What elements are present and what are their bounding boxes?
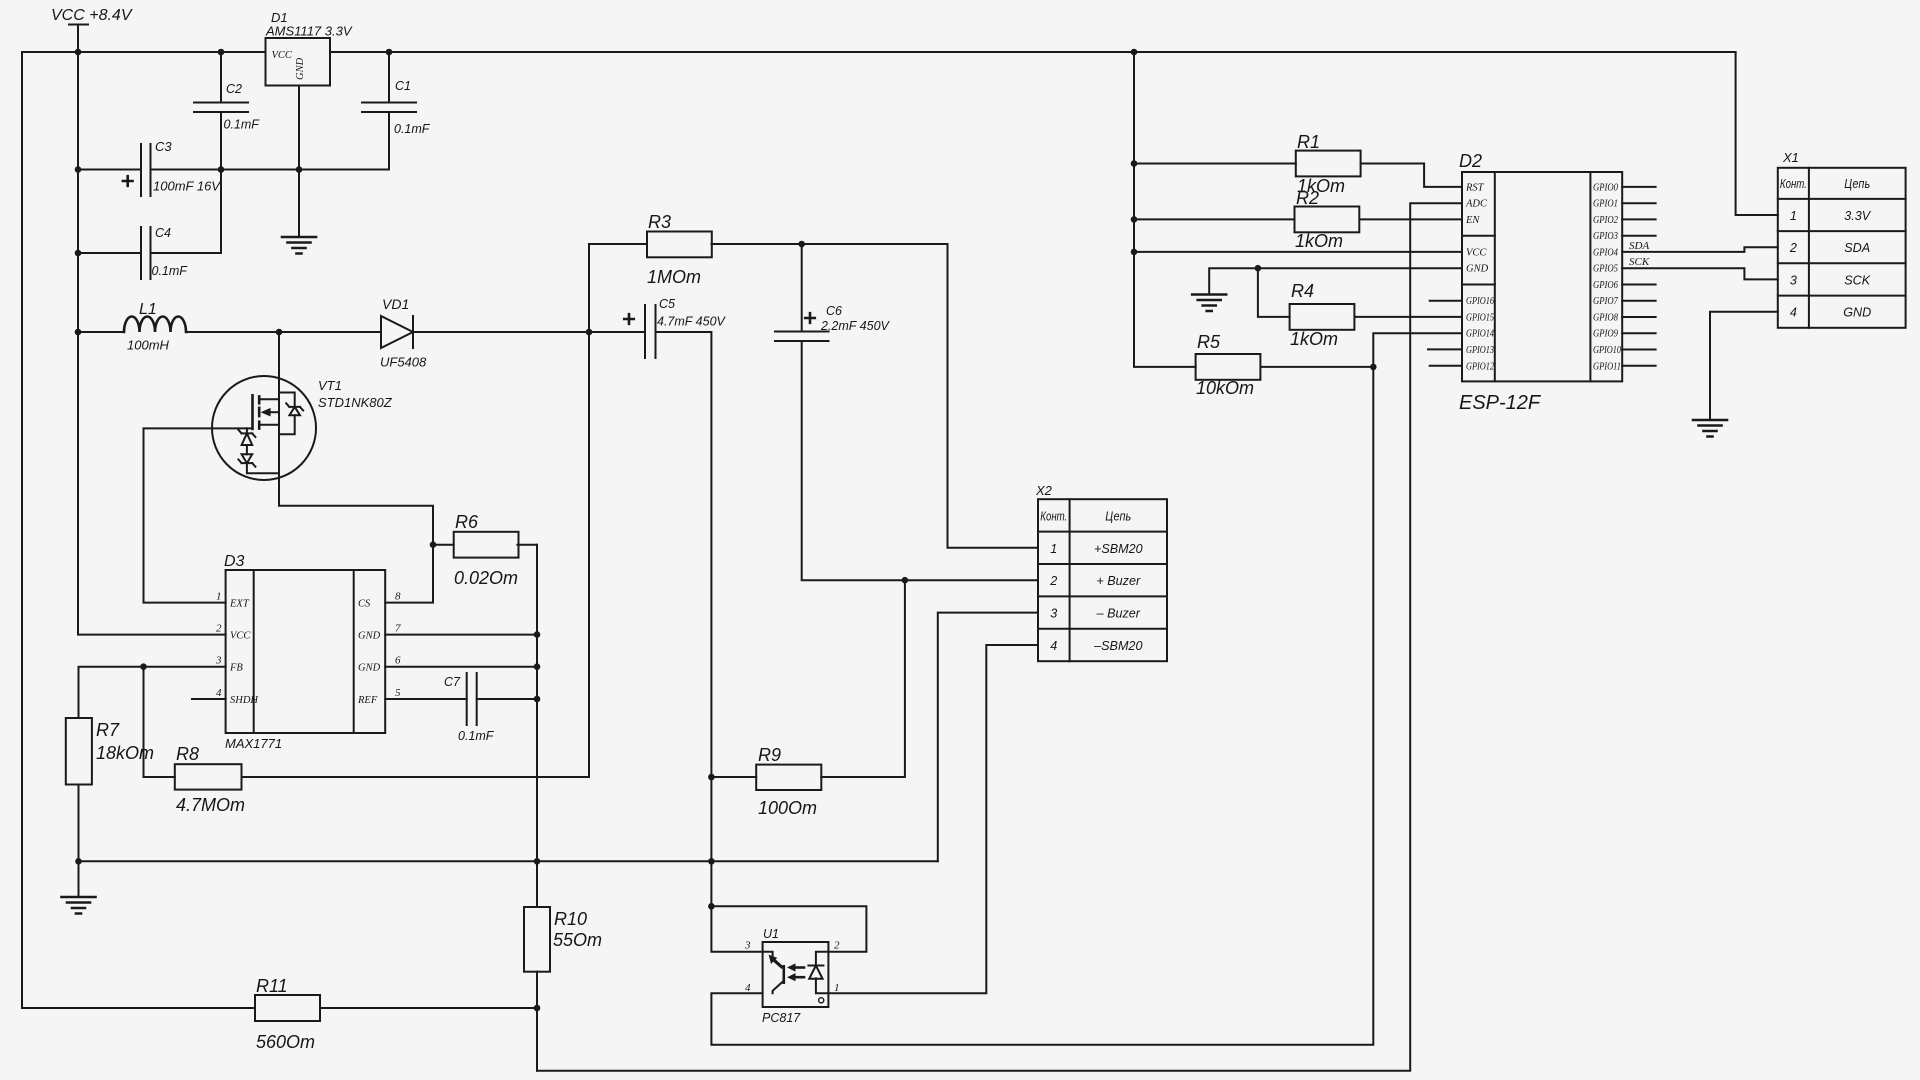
junction — [75, 49, 82, 56]
resistor R9 100Om — [756, 745, 821, 818]
svg-text:1: 1 — [1050, 542, 1057, 556]
svg-text:0.02Om: 0.02Om — [454, 568, 518, 588]
svg-text:X1: X1 — [1782, 150, 1799, 165]
wire: rail to L1 — [78, 331, 124, 333]
wire: D1 GND pin to ground — [298, 86, 300, 238]
resistor R4 1kOm — [1290, 281, 1355, 349]
svg-text:AMS1117 3.3V: AMS1117 3.3V — [265, 24, 353, 39]
junction — [296, 166, 303, 173]
svg-text:1MOm: 1MOm — [647, 267, 701, 287]
resistor R5 10kOm — [1196, 332, 1261, 398]
svg-text:2: 2 — [216, 623, 222, 635]
resistor R11 560Om — [255, 976, 320, 1052]
connector X2 table — [1035, 483, 1167, 661]
junction — [140, 663, 147, 670]
svg-text:GPIO14: GPIO14 — [1466, 329, 1495, 340]
wire: X2 pin3 (-Buzer) to ground bus — [938, 613, 1038, 862]
svg-text:PC817: PC817 — [762, 1011, 801, 1025]
svg-text:EXT: EXT — [229, 599, 250, 610]
wire: C4 row — [78, 252, 221, 254]
svg-text:1: 1 — [1790, 209, 1797, 223]
wire: GND rail of MAX1771 — [536, 545, 538, 907]
svg-text:GPIO1: GPIO1 — [1593, 199, 1618, 210]
junction — [276, 329, 283, 336]
wire: VT1 drain-source path to R6 node — [279, 332, 433, 545]
junction — [218, 166, 225, 173]
svg-text:GPIO0: GPIO0 — [1593, 182, 1619, 193]
svg-text:GPIO2: GPIO2 — [1593, 215, 1619, 226]
junction — [534, 663, 541, 670]
junction — [708, 774, 715, 781]
svg-text:3: 3 — [215, 655, 222, 667]
wire: SDA GPIO4 to X1 pin2 — [1622, 247, 1778, 252]
IC D2 ESP-12F — [1459, 151, 1622, 414]
svg-text:0.1mF: 0.1mF — [458, 729, 495, 743]
svg-text:SCK: SCK — [1629, 256, 1650, 268]
wire: R11 to divider node — [320, 1007, 537, 1009]
svg-text:GND: GND — [358, 631, 381, 642]
svg-text:100Om: 100Om — [758, 798, 817, 818]
svg-text:3.3V: 3.3V — [1844, 209, 1872, 223]
wire: SCK GPIO5 to X1 pin3 — [1622, 268, 1778, 279]
junction — [798, 241, 805, 248]
wire: R3 to X2 pin1 (+SBM20) — [712, 244, 1039, 548]
svg-text:C4: C4 — [155, 226, 171, 240]
resistor R3 1MOm — [647, 212, 712, 287]
svg-text:2.2mF 450V: 2.2mF 450V — [820, 319, 891, 333]
svg-text:4: 4 — [1790, 306, 1797, 320]
svg-text:R11: R11 — [256, 976, 288, 996]
svg-text:GPIO15: GPIO15 — [1466, 313, 1494, 324]
svg-text:GPIO3: GPIO3 — [1593, 231, 1618, 242]
svg-text:4: 4 — [216, 687, 222, 699]
junction — [75, 858, 82, 865]
IC D3 MAX1771 — [215, 553, 401, 751]
svg-text:1: 1 — [834, 982, 840, 994]
wire: EXT pin to gate — [144, 428, 253, 602]
connector X1 table — [1778, 150, 1906, 328]
wire: ESP right GPIO stubs — [1622, 187, 1655, 366]
svg-text:GND: GND — [1466, 264, 1489, 275]
junction — [386, 49, 393, 56]
wire: GND pin7 row — [385, 634, 537, 636]
capacitor C5 4.7mF 450V (polarized) — [624, 297, 726, 358]
svg-text:EN: EN — [1465, 215, 1480, 226]
svg-text:Конт.: Конт. — [1780, 177, 1807, 191]
svg-text:GND: GND — [358, 663, 381, 674]
wire: X2 pin4 (-SBM20) to U1 pin1 — [828, 645, 1038, 993]
svg-text:GPIO9: GPIO9 — [1593, 329, 1619, 340]
svg-text:4.7mF 450V: 4.7mF 450V — [657, 315, 727, 329]
svg-text:GPIO13: GPIO13 — [1466, 345, 1494, 356]
svg-text:Цепь: Цепь — [1844, 177, 1870, 191]
svg-text:R6: R6 — [455, 512, 479, 532]
svg-text:GPIO10: GPIO10 — [1593, 345, 1622, 356]
wire: output node to R3 — [589, 244, 647, 332]
svg-text:5: 5 — [395, 687, 401, 699]
svg-text:STD1NK80Z: STD1NK80Z — [318, 395, 393, 410]
svg-text:4: 4 — [1050, 639, 1057, 653]
svg-text:ESP-12F: ESP-12F — [1459, 392, 1542, 414]
svg-text:C5: C5 — [659, 297, 675, 311]
wire: C1 top — [388, 52, 390, 103]
svg-text:SCK: SCK — [1844, 273, 1870, 287]
svg-text:Конт.: Конт. — [1040, 510, 1067, 524]
svg-text:GPIO8: GPIO8 — [1593, 313, 1619, 324]
svg-text:VCC +8.4V: VCC +8.4V — [51, 7, 133, 24]
inductor L1 100mH — [124, 301, 186, 353]
wire: GPIO12 stub — [1430, 365, 1462, 367]
svg-text:R7: R7 — [96, 720, 120, 740]
svg-text:UF5408: UF5408 — [380, 355, 427, 370]
wire: REF pin to C7 — [385, 698, 537, 700]
resistor R7 18kOm (vertical) — [66, 718, 154, 785]
svg-text:+SBM20: +SBM20 — [1094, 542, 1143, 556]
wire: ground bus — [78, 860, 938, 862]
wire: ESP 3.3V rail to R5 — [1134, 52, 1196, 367]
junction — [1131, 49, 1138, 56]
capacitor C7 0.1mF — [444, 673, 495, 743]
junction — [218, 49, 225, 56]
junction — [534, 696, 541, 703]
node VCC +8.4V flag — [51, 7, 133, 25]
svg-text:4.7MOm: 4.7MOm — [176, 795, 245, 815]
svg-text:4: 4 — [745, 982, 751, 994]
wire: C3 row — [78, 169, 389, 171]
wire: R10 bottom to bottom bus — [536, 972, 538, 1071]
ground (X1 GND) — [1693, 420, 1727, 437]
wire: C2 top — [220, 52, 222, 103]
svg-text:CS: CS — [358, 599, 371, 610]
svg-text:R9: R9 — [758, 745, 781, 765]
wire: left border to R11 — [22, 52, 255, 1008]
capacitor C1 0.1mF — [362, 79, 431, 136]
svg-text:GPIO16: GPIO16 — [1466, 296, 1495, 307]
wire: R5 right to GPIO14 net — [1261, 366, 1374, 368]
wire: bus to X1 pin1 (3.3V) — [1736, 52, 1778, 215]
wire: FB pin to R7 — [79, 667, 226, 718]
svg-text:SDA: SDA — [1844, 241, 1870, 255]
svg-text:3: 3 — [1790, 273, 1797, 287]
wire: R9 left to ground rail — [711, 776, 756, 778]
wire: GPIO16 stub — [1430, 300, 1462, 302]
svg-text:GPIO11: GPIO11 — [1593, 361, 1621, 372]
wire: X1 pin4 GND to ground — [1710, 312, 1778, 420]
svg-text:GPIO6: GPIO6 — [1593, 280, 1619, 291]
svg-text:18kOm: 18kOm — [96, 743, 154, 763]
junction — [534, 858, 541, 865]
svg-text:VCC: VCC — [1466, 247, 1487, 258]
svg-text:R4: R4 — [1291, 281, 1314, 301]
wire: VD1 to C5 — [413, 331, 645, 333]
svg-text:6: 6 — [395, 655, 401, 667]
optocoupler U1 PC817 — [744, 927, 840, 1025]
wire: R1 leads to RST — [1134, 164, 1462, 187]
wire: CS pin to R6 node — [385, 545, 433, 603]
svg-text:RST: RST — [1465, 182, 1485, 193]
resistor R8 4.7MOm — [175, 744, 245, 815]
svg-text:–SBM20: –SBM20 — [1093, 639, 1142, 653]
ground (R7/bus) — [62, 897, 96, 914]
wire: FB node down to R8 — [144, 667, 175, 777]
svg-text:VCC: VCC — [230, 631, 251, 642]
svg-text:L1: L1 — [139, 301, 157, 318]
junction — [1131, 249, 1138, 256]
svg-text:GND: GND — [295, 57, 306, 80]
junction — [534, 1005, 541, 1012]
wire: R4 right to GPIO15 — [1355, 316, 1463, 318]
regulator D1 AMS1117 3.3V — [265, 10, 353, 86]
svg-text:VD1: VD1 — [382, 296, 409, 312]
svg-text:R2: R2 — [1296, 188, 1319, 208]
wire: C6 top branch — [801, 244, 803, 332]
wire: GND pin6 row — [385, 666, 537, 668]
wire: C1 bottom — [388, 112, 390, 170]
wire: buzzer node down to R9 — [821, 580, 905, 777]
junction — [902, 577, 909, 584]
svg-text:GPIO5: GPIO5 — [1593, 264, 1618, 275]
svg-text:0.1mF: 0.1mF — [152, 264, 189, 278]
diode VD1 UF5408 — [380, 296, 427, 370]
wire: GPIO13 stub — [1428, 348, 1462, 350]
resistor R10 55Om (vertical) — [524, 907, 602, 972]
wire: R2 leads to EN — [1134, 218, 1462, 220]
wire: U1 pin4 to GPIO14 net — [711, 333, 1462, 1045]
junction — [586, 329, 593, 336]
wire: C2 bottom — [220, 112, 222, 253]
svg-text:C2: C2 — [226, 82, 242, 96]
svg-text:2: 2 — [1049, 574, 1057, 588]
svg-text:R5: R5 — [1197, 332, 1221, 352]
wire: C6 bottom to X2 pin2 (+Buzer) — [802, 341, 1038, 580]
junction — [75, 329, 82, 336]
transistor VT1 STD1NK80Z (N-MOSFET with zeners) — [212, 376, 393, 480]
wire: L1 to VD1 — [186, 331, 381, 333]
svg-text:+ Buzer: + Buzer — [1096, 574, 1141, 588]
svg-text:100mH: 100mH — [127, 338, 170, 353]
wire: R8 to output feedback rail — [242, 332, 590, 777]
svg-text:D2: D2 — [1459, 151, 1482, 171]
junction — [1370, 364, 1377, 371]
svg-text:2: 2 — [1789, 241, 1797, 255]
junction — [75, 166, 82, 173]
capacitor C4 0.1mF — [141, 226, 188, 279]
capacitor C6 2.2mF 450V (polarized) — [775, 304, 891, 341]
svg-text:R10: R10 — [554, 909, 587, 929]
junction — [1131, 160, 1138, 167]
svg-text:C6: C6 — [826, 304, 842, 318]
svg-text:1kOm: 1kOm — [1290, 329, 1338, 349]
resistor R1 1kOm — [1296, 132, 1361, 196]
svg-text:560Om: 560Om — [256, 1032, 315, 1052]
svg-text:55Om: 55Om — [553, 930, 602, 950]
svg-text:7: 7 — [395, 623, 401, 635]
svg-text:SHDH: SHDH — [230, 695, 259, 706]
svg-text:100mF 16V: 100mF 16V — [153, 179, 221, 194]
svg-text:2: 2 — [834, 940, 840, 952]
wire: +8.4V top bus — [22, 51, 1736, 53]
svg-text:R1: R1 — [1297, 132, 1320, 152]
svg-text:U1: U1 — [763, 927, 779, 941]
svg-text:Цепь: Цепь — [1105, 510, 1131, 524]
svg-text:FB: FB — [229, 663, 243, 674]
ground (D1) — [282, 237, 316, 254]
wire: ESP VCC row — [1134, 251, 1462, 253]
svg-text:GND: GND — [1843, 306, 1871, 320]
wire: bottom bus to ESP ADC — [537, 203, 1462, 1070]
junction — [430, 541, 437, 548]
junction — [75, 250, 82, 257]
svg-text:REF: REF — [357, 695, 378, 706]
svg-text:3: 3 — [1050, 607, 1057, 621]
svg-text:MAX1771: MAX1771 — [225, 736, 282, 751]
resistor R6 0.02Om — [454, 512, 519, 588]
svg-text:– Buzer: – Buzer — [1096, 607, 1141, 621]
junction — [534, 631, 541, 638]
svg-text:VCC: VCC — [272, 50, 293, 61]
svg-text:D3: D3 — [224, 553, 245, 570]
junction — [708, 903, 715, 910]
svg-text:GPIO12: GPIO12 — [1466, 361, 1495, 372]
svg-text:GPIO4: GPIO4 — [1593, 247, 1619, 258]
wire: ESP GND row to ground — [1209, 268, 1462, 294]
svg-text:10kOm: 10kOm — [1196, 378, 1254, 398]
svg-text:0.1mF: 0.1mF — [224, 118, 261, 132]
svg-text:0.1mF: 0.1mF — [394, 122, 431, 136]
wire: R7 bottom to ground — [78, 785, 80, 898]
svg-text:1kOm: 1kOm — [1295, 231, 1343, 251]
wire: U1 pins2,3 ground link — [711, 906, 866, 951]
capacitor C2 0.1mF — [194, 82, 260, 132]
svg-text:3: 3 — [744, 940, 751, 952]
junction — [708, 858, 715, 865]
svg-text:1: 1 — [216, 591, 222, 603]
svg-text:R8: R8 — [176, 744, 199, 764]
svg-text:SDA: SDA — [1629, 240, 1649, 252]
junction — [1255, 265, 1262, 272]
wire: C5- HV ground rail down to U1 pin3 — [656, 332, 763, 952]
svg-text:R3: R3 — [648, 212, 671, 232]
svg-text:VT1: VT1 — [318, 378, 342, 393]
ground (ESP GND) — [1192, 295, 1226, 312]
wire: GND row branch to R4 — [1258, 268, 1290, 317]
resistor R2 1kOm — [1295, 188, 1360, 251]
svg-text:GPIO7: GPIO7 — [1593, 296, 1619, 307]
wire: SHDH stub — [192, 698, 226, 700]
svg-text:X2: X2 — [1035, 483, 1053, 498]
svg-text:ADC: ADC — [1465, 199, 1488, 210]
svg-text:8: 8 — [395, 591, 401, 603]
junction — [1131, 216, 1138, 223]
svg-text:C3: C3 — [155, 139, 172, 154]
svg-text:C1: C1 — [395, 79, 411, 93]
capacitor C3 100mF 16V (polarized) — [123, 139, 221, 196]
svg-text:C7: C7 — [444, 675, 461, 689]
wire: VCC rail to D3 VCC pin — [78, 25, 226, 635]
wire: R6 leads — [433, 544, 537, 546]
